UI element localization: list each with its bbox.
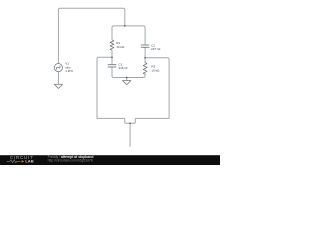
label V1 bbox=[65, 61, 73, 73]
ground mid bbox=[123, 81, 131, 85]
wire bottom stub down bbox=[129, 123, 131, 146]
resistor R1 bbox=[110, 40, 114, 50]
junction node mid ground bbox=[126, 77, 128, 79]
wire left loop bbox=[97, 57, 112, 118]
voltage source V1 bbox=[54, 64, 62, 72]
wire ground2 stub bbox=[126, 78, 128, 81]
svg-text:318 nF: 318 nF bbox=[118, 66, 128, 70]
capacitor C1 bbox=[108, 65, 117, 67]
capacitor C2 bbox=[141, 45, 150, 47]
wire bottom rail with notch bbox=[97, 118, 169, 123]
svg-text:http://circuitlab.com/c6q53d78: http://circuitlab.com/c6q53d78 bbox=[48, 159, 93, 163]
label R1 bbox=[116, 41, 125, 49]
resistor R2 bbox=[143, 63, 147, 74]
svg-text:1 kHz: 1 kHz bbox=[65, 69, 73, 73]
logo resistor zigzag bbox=[7, 160, 21, 163]
svg-text:LAB: LAB bbox=[25, 160, 33, 164]
wire V1 top to feed drop (node IN) bbox=[58, 8, 124, 63]
wire output node to right loop bbox=[145, 58, 169, 119]
svg-text:227 nF: 227 nF bbox=[151, 47, 161, 51]
svg-text:10 kΩ: 10 kΩ bbox=[151, 69, 160, 73]
wire mid rail right to R2 bottom bbox=[127, 74, 145, 77]
wire V1 bottom lead bbox=[57, 72, 59, 84]
label R2 bbox=[151, 65, 160, 73]
wire rail2 R1top-C2top bbox=[112, 26, 145, 45]
label C2 bbox=[151, 43, 161, 51]
wire C1 top lead bbox=[111, 57, 113, 64]
wire R1 bottom lead bbox=[111, 50, 113, 57]
label C1 bbox=[118, 62, 128, 70]
watermark bar bbox=[0, 155, 220, 165]
wire C2 bottom lead bbox=[144, 48, 146, 58]
svg-text:10 kΩ: 10 kΩ bbox=[116, 45, 125, 49]
junction node R1/C1 bbox=[111, 56, 113, 58]
ground under V1 bbox=[54, 84, 62, 88]
wire R2 top lead bbox=[144, 58, 146, 63]
logo arrow bbox=[22, 160, 25, 163]
wire C1 bottom to mid rail bbox=[112, 67, 127, 77]
junction node C2/R2 out bbox=[144, 57, 146, 59]
junction node bottom bbox=[129, 122, 131, 124]
junction node IN top bbox=[124, 25, 126, 27]
